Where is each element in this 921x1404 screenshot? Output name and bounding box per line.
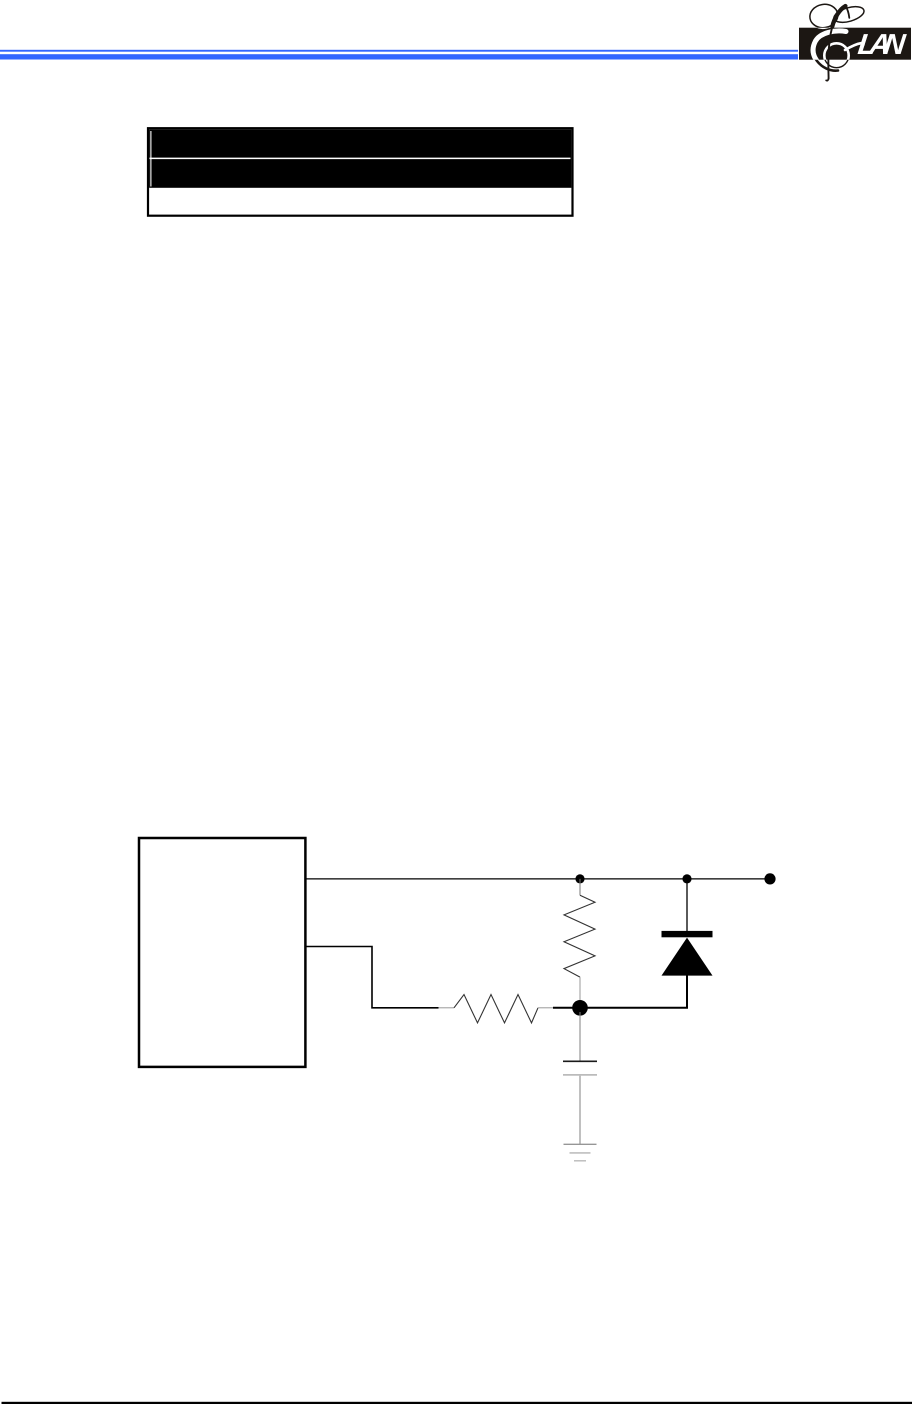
header rule thin (blue) [0,50,798,52]
revision table left cell divider [150,131,152,187]
header rule thick (blue) [0,54,798,59]
revision table black rows [149,129,571,188]
wire node C to diode D1 anode [553,975,687,1008]
IC block U1 [139,838,305,1067]
wire node B to diode D1 cathode [686,879,688,931]
node C junction dot (big) [572,1000,588,1016]
capacitor C1 top plate [563,1060,597,1062]
wire capacitor C1 to ground [579,1076,581,1144]
revision table white row separator [150,157,571,159]
resistor R2 (horizontal) [439,995,554,1023]
revision table outer border [148,128,573,216]
node A junction dot [575,874,584,883]
diode D1 anode triangle [662,938,713,976]
ELAN logo script E [808,2,866,80]
ELAN logo box [799,28,911,60]
resistor R1 (vertical) [564,879,595,1001]
footer rule [2,1402,913,1404]
node B junction dot [682,874,691,883]
capacitor C1 bottom plate [563,1074,597,1076]
wire node C to capacitor C1 [579,1012,581,1061]
VDD terminal dot [764,873,775,884]
diode D1 cathode bar [662,931,713,937]
wire U1 pin2 to resistor R2 [306,947,439,1008]
ground symbol [564,1144,597,1161]
wire U1 pin1 to VDD rail (node A, node B, terminal) [306,878,771,880]
